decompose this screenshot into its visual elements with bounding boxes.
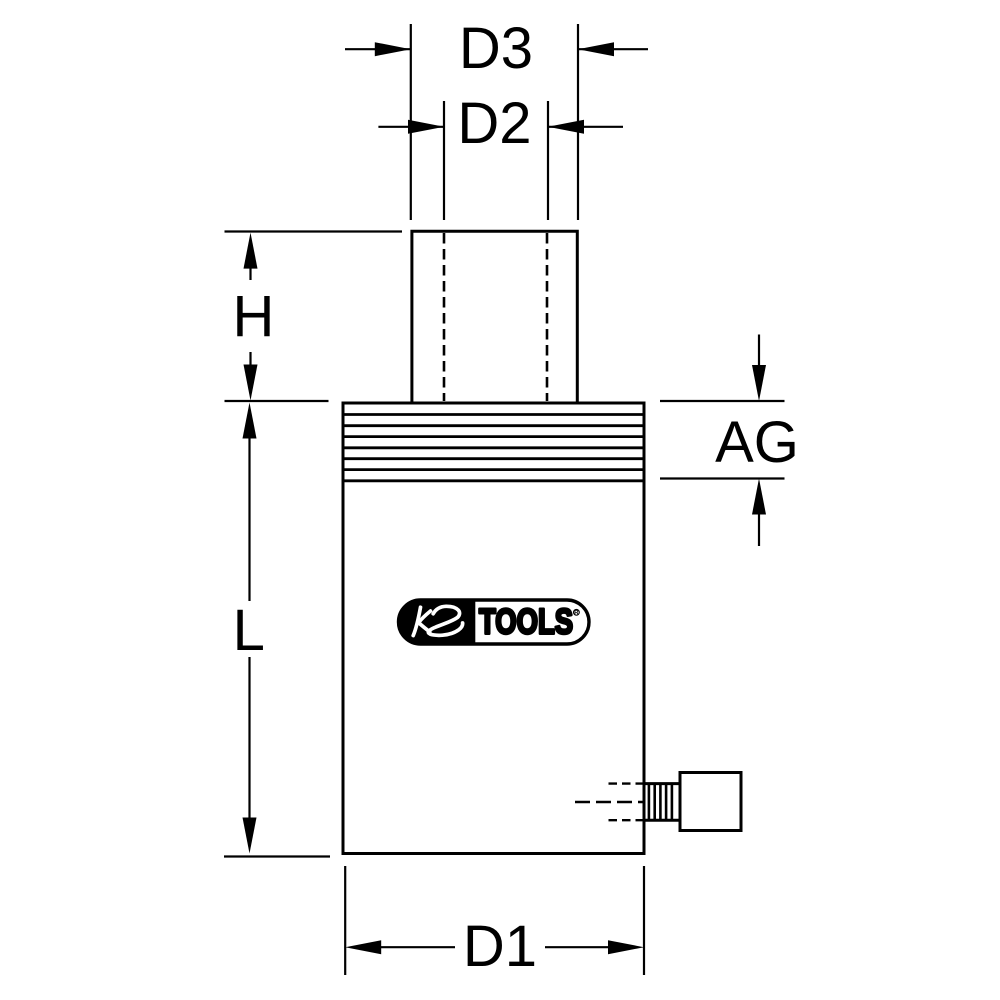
D1 dimension line right — [545, 946, 608, 948]
dimension graphics — [224, 24, 785, 975]
logo KS script — [413, 606, 462, 635]
piston hidden line left (dashed) — [443, 233, 446, 401]
thread groove line 3 — [345, 435, 643, 438]
D1 arrowhead right (out) — [608, 940, 644, 954]
D3 dimension line left — [345, 48, 411, 50]
nipple thread line 3 — [659, 784, 662, 821]
D1 extension line left — [344, 866, 346, 975]
piston (top cylinder) outline — [412, 231, 577, 403]
svg-text:D2: D2 — [457, 91, 531, 156]
H arrowhead bottom (down) — [244, 365, 258, 401]
H/L shared extension line — [225, 400, 329, 402]
thread groove line 2 — [345, 424, 643, 427]
svg-text:H: H — [233, 284, 275, 349]
D2 dimension line left — [378, 126, 444, 128]
H extension line top — [225, 230, 403, 232]
thread groove line 1 — [345, 413, 643, 416]
svg-text:AG: AG — [715, 410, 799, 475]
D2 extension line left — [443, 101, 445, 220]
D1 dimension line left — [381, 946, 455, 948]
logo pill outline — [399, 600, 590, 644]
AG arrowhead bottom (up) — [752, 479, 766, 515]
D3 dimension line right — [578, 48, 648, 50]
D2 arrowhead right — [548, 120, 584, 134]
L dimension line lower stem — [248, 657, 250, 818]
AG extension line top — [660, 400, 785, 402]
D2 arrowhead left — [408, 120, 444, 134]
side port fitting block — [680, 773, 741, 831]
L arrowhead bottom (down) — [243, 818, 257, 854]
logo black left field — [398, 599, 475, 645]
D3 arrowhead left — [375, 42, 411, 56]
AG lower stem — [758, 514, 760, 546]
thread groove line 4 — [345, 446, 643, 449]
svg-text:D3: D3 — [459, 16, 533, 81]
H arrowhead top (up) — [244, 233, 258, 269]
svg-text:R: R — [574, 609, 579, 616]
D1 extension line right — [643, 866, 645, 975]
D2 extension line right — [547, 101, 549, 220]
logo registered mark — [574, 609, 580, 615]
D3 extension line right — [577, 24, 579, 220]
thread groove line 6 — [345, 468, 643, 471]
L dimension line upper stem — [248, 438, 250, 601]
H dimension line lower stem — [249, 352, 251, 365]
H dimension line upper stem — [249, 268, 251, 280]
side port threaded nipple outline — [646, 784, 681, 821]
body (main cylinder) outline — [343, 403, 644, 854]
D1 arrowhead left (out) — [345, 940, 381, 954]
KS TOOLS logo — [398, 599, 589, 645]
D2 dimension line right — [548, 126, 623, 128]
nipple thread line 1 — [648, 784, 651, 821]
D3 arrowhead right — [578, 42, 614, 56]
hidden port bore top (dashed) — [609, 782, 644, 784]
svg-text:TOOLS: TOOLS — [479, 601, 573, 641]
svg-text:D1: D1 — [463, 914, 537, 979]
AG extension line bottom — [660, 477, 785, 479]
thread groove line 5 — [345, 457, 643, 460]
svg-text:L: L — [233, 598, 265, 663]
L arrowhead top (up) — [243, 403, 257, 439]
thread groove line 7 — [345, 479, 643, 482]
nipple thread line 5 — [671, 784, 674, 821]
AG upper stem — [758, 335, 760, 367]
hidden port bore bottom (dashed) — [609, 819, 644, 821]
AG arrowhead top (down) — [752, 365, 766, 401]
piston hidden line right (dashed) — [546, 233, 549, 401]
D3 extension line left — [410, 24, 412, 220]
nipple thread line 4 — [665, 784, 668, 821]
port centre line (dash-dot) — [575, 801, 643, 803]
L extension line bottom — [224, 855, 330, 857]
nipple thread line 2 — [653, 784, 656, 821]
